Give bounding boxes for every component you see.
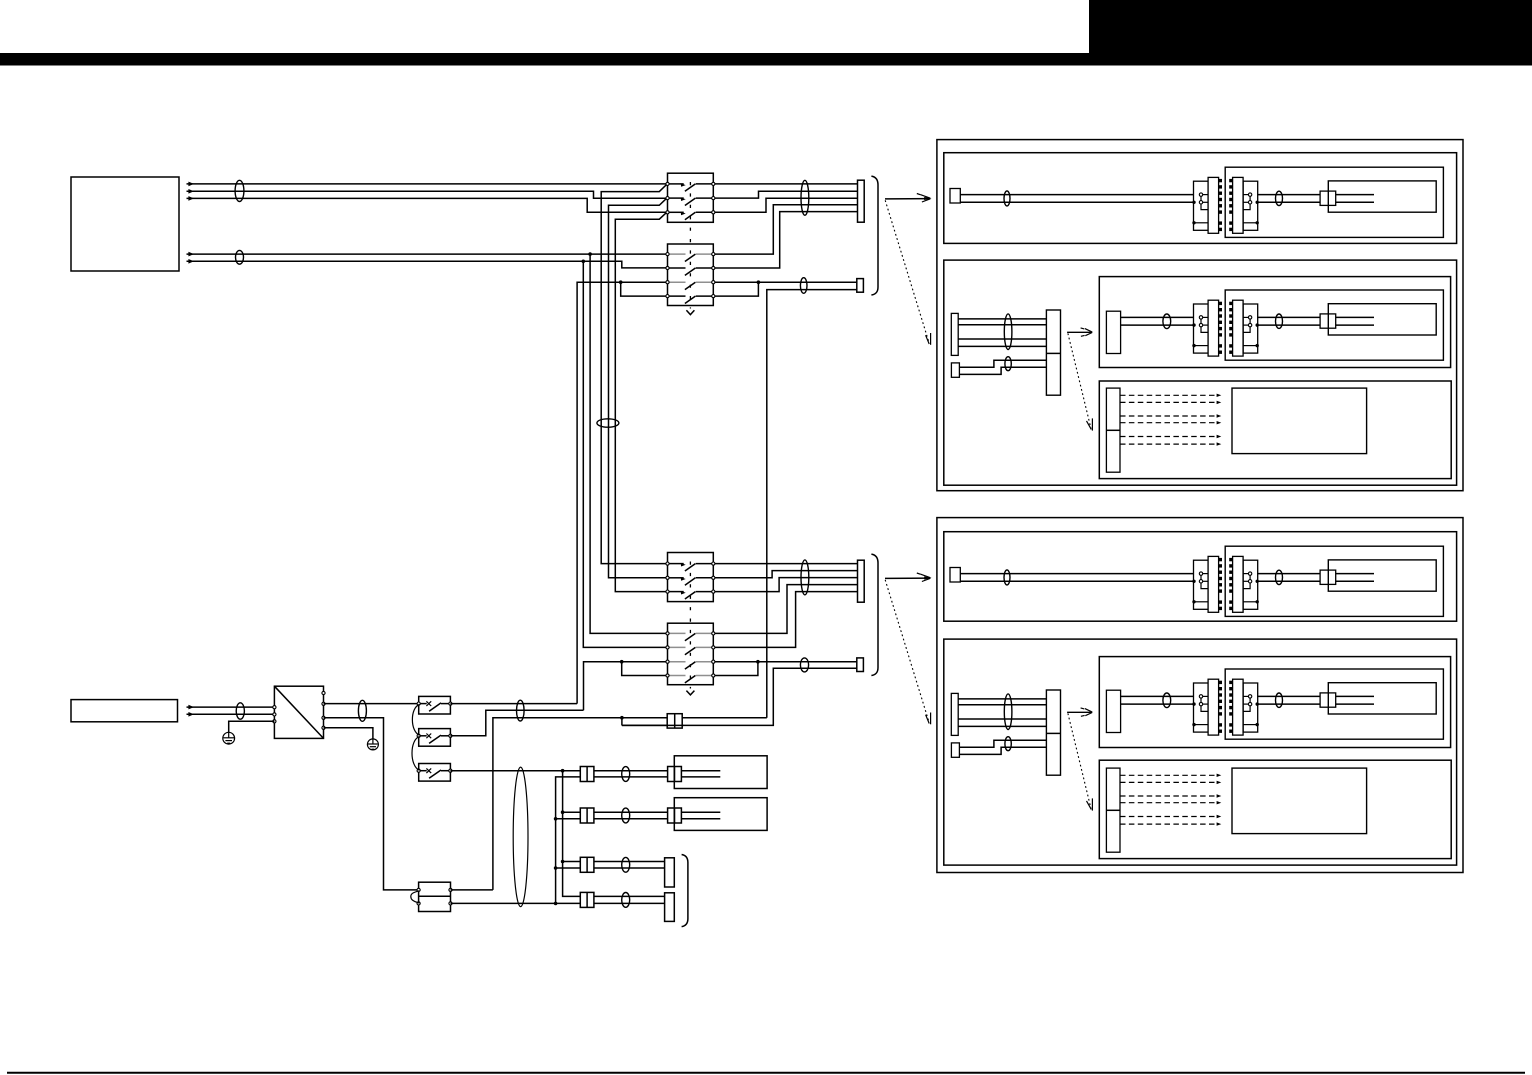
wire SB3 row3 to connector (715, 578, 858, 592)
cable tie 4-feed bottom (1004, 694, 1012, 730)
earth ground G1 (223, 732, 235, 744)
relay SB2 contact row4 (669, 295, 686, 297)
junction dot on W1 (620, 716, 624, 720)
bar connector row3 (665, 858, 675, 887)
wire P1 out 3 (187, 198, 667, 212)
bus V1 output common A (563, 771, 581, 897)
channel assembly sub3 top (1130, 290, 1443, 360)
wire S3 to row1 (450, 770, 580, 772)
transformer T1 (274, 686, 323, 738)
relay dashed-line arrowhead (686, 310, 694, 314)
unit box bottom sub4 (1099, 760, 1451, 858)
bar connector row4 (665, 893, 675, 922)
relay SB1 contact row1 (669, 183, 684, 185)
wire relay row3 top (577, 282, 667, 703)
cable tie row2 (622, 808, 630, 823)
bus wire B2 (609, 198, 667, 578)
wire row2 to output box (580, 811, 720, 813)
wire W2 under C5 (622, 724, 684, 726)
wire strip1 top pair (960, 194, 1130, 196)
relay SB3 contact row2 (669, 577, 684, 579)
sub4 connector bottom (1106, 768, 1120, 852)
relay block SB3 outline (668, 553, 714, 602)
connector stub row4 (580, 892, 594, 907)
relay SB2 contact row1 (669, 253, 686, 255)
cable tie E7 (800, 658, 808, 672)
unit box top sub4 (1099, 381, 1451, 479)
block P1 top-left source unit (71, 177, 179, 271)
bus wire B5 (583, 261, 666, 647)
unit box bottom strip1 (944, 532, 1457, 622)
relay SB4 contact row4 (669, 675, 686, 677)
wire T1 secondary 3 to ground (324, 728, 373, 739)
wire W2 jog (621, 718, 623, 726)
sub4 connector top (1106, 388, 1120, 472)
wire T1 secondary 2 (324, 718, 418, 890)
wire row1 to output box (580, 770, 720, 772)
bus wire B3 (615, 212, 666, 591)
junction dot on wire 4 (588, 252, 592, 256)
switch S3 outline (419, 764, 451, 782)
wire SB4 row2 to connector (715, 592, 858, 648)
input plug strip1 bottom (950, 568, 960, 583)
bus V2 output common B (556, 777, 581, 904)
wire SB4 row4 join (715, 662, 758, 676)
inline connector C5 (667, 714, 682, 728)
dashed signal arrow bottom 3 (1120, 795, 1217, 797)
wire SB2 row3 to small connector (715, 281, 857, 283)
group bracket BR2 (871, 554, 878, 675)
connector stub row2 second (668, 808, 682, 823)
big cable bundle ellipse (513, 767, 528, 907)
wire S2 to bus (450, 710, 583, 736)
wire T2 right upper (451, 889, 493, 891)
unit box bottom main2 (944, 639, 1457, 865)
junction dot on wire 5 (582, 260, 586, 264)
relay SB3 contact row3 (669, 591, 684, 593)
cable tie row4 (622, 893, 630, 908)
relay SB1 contact row3 (669, 211, 684, 213)
junction dot row3 top (619, 280, 623, 284)
junction dot SB2 row3 (757, 280, 761, 284)
cable tie E9 (358, 700, 366, 721)
cable tie sub3 bottom (1163, 693, 1171, 708)
dashed signal arrow top 6 (1120, 443, 1217, 445)
dashed signal arrow bottom 2 (1120, 781, 1217, 783)
relay SB3 contact row1 (669, 563, 684, 565)
small connector C4 (857, 658, 864, 672)
wire 4-feed bottom (958, 698, 1046, 700)
page header black title box (1089, 0, 1532, 66)
junction dot row3 bottom (620, 660, 624, 664)
wire row4 to bar connector (580, 895, 664, 897)
connector stub row1 (580, 767, 594, 782)
wire small feed B bottom (959, 747, 1046, 754)
pointer arrow A1 to upper unit (885, 198, 930, 200)
bus wire B1 (601, 185, 666, 564)
cable tie strip1 top (1004, 191, 1010, 206)
dashed signal arrow bottom 4 (1120, 802, 1217, 804)
pointer dashed diagonal top to sub4 (1068, 333, 1091, 428)
wire SB1 row1 to connector (715, 183, 858, 185)
cable tie E5 (800, 278, 807, 294)
pointer arrow A2 to upper unit (885, 577, 930, 579)
connector bar C3 (858, 560, 865, 602)
wire S1 to bus (450, 703, 577, 705)
cable tie E4 (801, 180, 809, 215)
input plug small top (951, 363, 959, 377)
dashed signal arrow top 3 (1120, 415, 1217, 417)
channel assembly sub3 bottom (1130, 669, 1443, 739)
wire speaker row2 pair (563, 811, 581, 813)
junction connector bottom (1046, 690, 1060, 775)
wire SB4 row3 to small connector (715, 661, 857, 663)
dashed signal arrow bottom 5 (1120, 816, 1217, 818)
wire SB1 row3 to connector (715, 198, 858, 212)
pointer arrow bottom to sub3 (1067, 711, 1092, 713)
wire P1 out 5 (187, 261, 667, 268)
earth ground G2 (367, 739, 378, 750)
wire T2 link left (411, 891, 420, 903)
sub3 input bar top (1106, 311, 1120, 353)
relay SB4 contact row2 (669, 646, 686, 648)
cable tie E3 on buses (597, 419, 619, 427)
relay block SB4 outline (668, 623, 714, 685)
relay block SB1 outline (668, 173, 714, 222)
cable tie E10 (517, 700, 525, 721)
relay actuate dashed line SB1-SB2 (689, 182, 691, 309)
relay SB2 contact row3 (669, 281, 686, 283)
page header black bar (0, 53, 1532, 66)
wire SB1 row2 to connector (715, 191, 858, 198)
small connector C2 (857, 279, 864, 293)
cable tie E6 (801, 560, 809, 595)
switch S2 outline (419, 729, 451, 747)
wire mains neutral (187, 713, 275, 715)
wire P1 out 2 (187, 191, 667, 198)
connector stub row2 (580, 808, 594, 823)
cable tie strip1 bottom (1004, 570, 1010, 585)
pointer dashed diagonal DG1 to lower unit (885, 200, 929, 342)
wire mains live (187, 706, 275, 708)
switch S3 contact (420, 770, 426, 772)
unit box bottom sub3 (1099, 657, 1450, 748)
connector stub row1 second (668, 767, 682, 782)
channel assembly strip1 bottom (1130, 546, 1443, 616)
unit box top sub3 (1099, 277, 1450, 368)
output box R1 (674, 756, 767, 789)
unit box top strip1 (944, 153, 1457, 244)
wire S1 link to S2 (412, 705, 419, 736)
cable tie 4-feed top (1004, 314, 1012, 350)
wire to earth ground G1 (229, 721, 275, 732)
bottom rule (7, 1072, 1525, 1074)
dashed signal arrow bottom 1 (1120, 774, 1217, 776)
unit box top outer (937, 140, 1463, 491)
wire SB2 row4 join (715, 282, 759, 296)
cable tie E1 (235, 180, 244, 201)
cable tie row1 (622, 767, 630, 782)
wire P1 out 1 (187, 183, 667, 185)
wire sub3 pair top (1121, 316, 1130, 318)
dashed signal arrow top 4 (1120, 422, 1217, 424)
relay actuate dashed line SB3-SB4 (689, 562, 691, 689)
relay dashed-line arrowhead (686, 691, 694, 695)
wire power feed to small connector bottom (622, 668, 857, 725)
wire T2 right lower to row4 (451, 902, 581, 904)
input plug strip1 top (950, 189, 960, 204)
relay block SB2 outline (668, 244, 714, 306)
wire SB2 row1 to connector (715, 205, 858, 254)
switch S2 contact (420, 735, 426, 737)
wire power feed to small connector top (767, 290, 857, 718)
wire branch to row4 bottom (622, 662, 667, 676)
wire 4-feed top (958, 318, 1046, 320)
wire speaker row3 pair (563, 861, 581, 863)
input bar top (951, 313, 958, 355)
cable tie small feed top (1005, 357, 1011, 371)
wire SB3 row2 to connector (715, 571, 858, 578)
wire SB2 row2 to connector (715, 212, 858, 268)
group bracket BR1 (871, 176, 878, 295)
cable tie E8 (236, 703, 244, 719)
sub3 input bar bottom (1106, 690, 1120, 732)
output box R2 (674, 798, 767, 831)
pointer dashed diagonal bottom to sub4 (1068, 713, 1091, 808)
wire relay row3 bottom (584, 662, 667, 711)
dashed signal arrow bottom 6 (1120, 823, 1217, 825)
sub4 load box bottom (1232, 768, 1367, 834)
wire power rail W1 (493, 718, 767, 890)
wire S2 link to S3 (412, 737, 420, 771)
pointer arrow top to sub3 (1067, 331, 1092, 333)
dashed signal arrow top 5 (1120, 436, 1217, 438)
input plug small bottom (951, 743, 959, 757)
cable tie row3 (622, 857, 630, 872)
switch S1 outline (419, 696, 451, 714)
input bar bottom (951, 693, 958, 735)
connector bar C1 (858, 180, 865, 222)
rectifier block T2 (419, 882, 451, 911)
switch S1 contact (420, 703, 426, 705)
wire SB4 row1 to connector (715, 585, 858, 634)
wire SB3 row1 to connector (715, 563, 858, 565)
wire T1 secondary 1 (324, 703, 418, 705)
unit box top main2 (944, 260, 1457, 485)
sub4 load box top (1232, 388, 1367, 454)
wire sub3 pair bottom (1121, 695, 1130, 697)
relay SB2 contact row2 (669, 267, 686, 269)
connector stub row3 (580, 857, 594, 872)
block P2 power inlet (71, 700, 178, 722)
wire small feed A top (959, 360, 1046, 367)
relay SB1 contact row2 (669, 197, 684, 199)
unit box bottom outer (937, 518, 1463, 873)
wire branch to row4 top (621, 282, 667, 296)
bus wire B4 (590, 254, 667, 633)
pointer dashed diagonal DG3 to lower unit (885, 580, 929, 722)
wire strip1 bottom pair (960, 573, 1130, 575)
wire P1 out 4 (187, 253, 667, 255)
channel assembly strip1 top (1130, 167, 1443, 237)
junction connector top (1046, 310, 1060, 395)
relay SB4 contact row3 (669, 661, 686, 663)
wire small feed A bottom (959, 740, 1046, 747)
wire row3 to bar connector (580, 861, 664, 863)
wire small feed B top (959, 367, 1046, 374)
relay SB4 contact row1 (669, 632, 686, 634)
cable tie sub3 top (1163, 314, 1171, 329)
junction dot SB4 row3 (756, 660, 760, 664)
group bracket BR3 (682, 855, 688, 927)
cable tie E2 (236, 250, 244, 264)
cable tie small feed bottom (1005, 737, 1011, 751)
dashed signal arrow top 2 (1120, 401, 1217, 403)
dashed signal arrow top 1 (1120, 394, 1217, 396)
